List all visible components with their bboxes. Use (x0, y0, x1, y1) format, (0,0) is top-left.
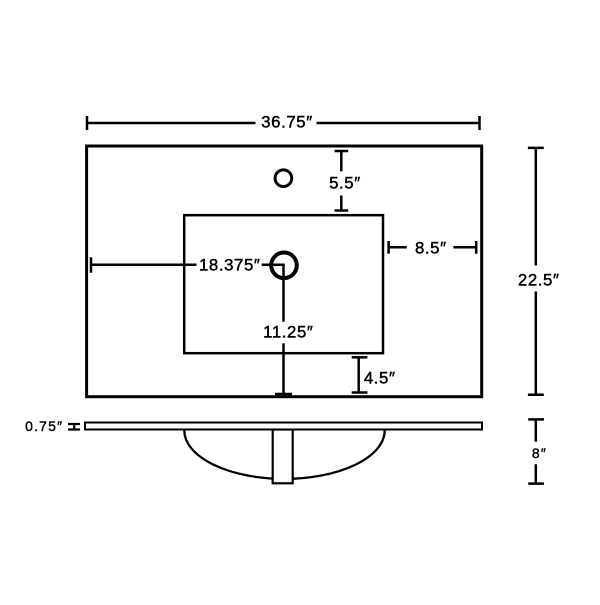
countertop outline (top view) (87, 146, 482, 397)
dimension 8" (bowl depth, right) (528, 419, 547, 483)
svg-text:8.5″: 8.5″ (415, 238, 447, 257)
svg-text:8″: 8″ (532, 445, 547, 461)
dimension 18.375" (left edge to drain center) (91, 256, 285, 275)
front view: drain pipe (273, 430, 293, 484)
front view: countertop slab (85, 423, 482, 430)
faucet hole (275, 170, 292, 187)
svg-text:22.5″: 22.5″ (518, 271, 560, 290)
svg-text:4.5″: 4.5″ (364, 369, 396, 388)
svg-text:36.75″: 36.75″ (261, 113, 313, 132)
dimension 36.75" (overall width, top) (87, 113, 480, 132)
dimension 5.5" (top edge to cutout) (329, 151, 361, 211)
front view: sink bowl arc (184, 431, 384, 479)
dimension 4.5" (cutout to front edge) (352, 357, 396, 392)
sink cutout rectangle (184, 215, 383, 353)
dimension 22.5" (overall depth, right) (518, 148, 560, 395)
svg-text:18.375″: 18.375″ (199, 256, 260, 275)
drain hole (271, 252, 297, 278)
dimension 11.25" (drain center to front edge) (263, 265, 313, 394)
dimension 8.5" (cutout to right edge) (389, 238, 477, 257)
svg-text:0.75″: 0.75″ (25, 418, 63, 434)
svg-text:11.25″: 11.25″ (263, 323, 313, 342)
svg-text:5.5″: 5.5″ (329, 174, 361, 193)
dimension 0.75" (slab thickness) (25, 418, 80, 434)
